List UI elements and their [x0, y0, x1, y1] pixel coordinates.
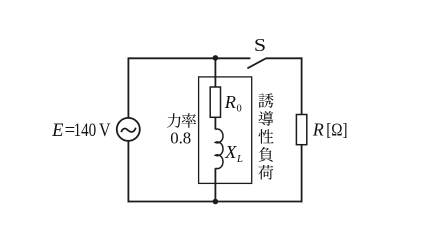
wire right vertical upper (top-right corner down to resistor R top): [301, 57, 303, 114]
label inductive-load kanji ka 荷 (vertical text char 5): [258, 165, 273, 180]
wire middle branch between R0 bottom and XL top: [214, 117, 216, 129]
wire left vertical lower (source bottom to bottom-left corner): [127, 141, 129, 203]
resistor R0 body: [210, 87, 220, 117]
wire left vertical upper (top-left corner down to source top): [127, 57, 129, 118]
node junction dot bottom: [213, 199, 219, 205]
label inductive-load kanji dou 導 (vertical text char 2): [259, 111, 274, 126]
label inductive-load kanji yuu 誘 (vertical text char 1): [258, 93, 273, 108]
label power-factor kanji riki 力: [167, 113, 181, 128]
wire middle branch lower (XL bottom to bottom junction): [214, 168, 216, 201]
svg-text:R: R: [224, 92, 236, 112]
wire top-right horizontal (switch right contact to top-right corner): [266, 57, 303, 59]
svg-text:S: S: [254, 35, 266, 55]
ac source sine wave symbol: [121, 128, 136, 132]
load box rectangle around R0 and XL: [199, 77, 252, 183]
node junction dot top: [213, 55, 219, 61]
svg-text:E=140V: E=140V: [51, 120, 111, 141]
switch S blade (open, diagonal): [247, 58, 266, 68]
label inductive-load kanji sei 性 (vertical text char 3): [259, 129, 274, 144]
label power-factor kanji ritsu 率: [182, 113, 197, 128]
svg-text:0.8: 0.8: [170, 128, 191, 147]
svg-text:R[Ω]: R[Ω]: [312, 119, 348, 139]
svg-text:X: X: [224, 142, 237, 162]
wire right vertical lower (resistor R bottom to bottom-right corner): [301, 145, 303, 203]
wire top horizontal (top-left corner to switch left contact): [128, 57, 250, 59]
inductor XL coil (3 loops): [215, 129, 223, 169]
label inductive-load kanji fu 負 (vertical text char 4): [259, 147, 273, 162]
resistor R body: [296, 115, 306, 145]
svg-text:L: L: [236, 153, 243, 165]
svg-text:0: 0: [237, 104, 242, 115]
ac source E circle: [117, 118, 140, 141]
wire bottom horizontal: [128, 201, 303, 203]
wire middle branch upper (top junction down to R0 top): [214, 58, 216, 87]
